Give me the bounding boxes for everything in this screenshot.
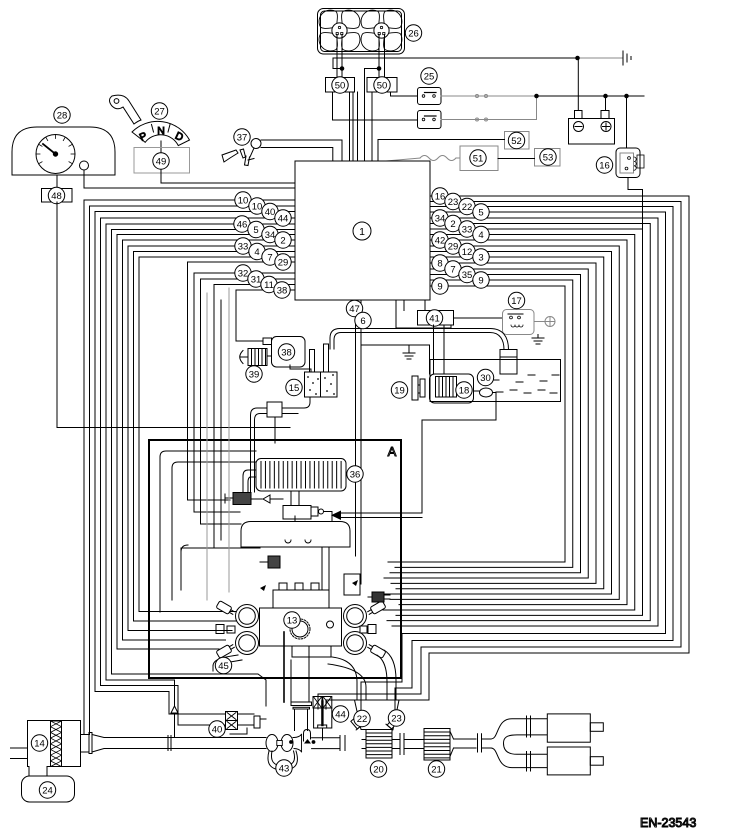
callout 21 bbox=[428, 761, 444, 777]
svg-text:9: 9 bbox=[478, 275, 483, 286]
svg-text:2: 2 bbox=[280, 235, 285, 246]
sub fan relay 25b bbox=[418, 111, 442, 129]
svg-text:3: 3 bbox=[478, 252, 483, 263]
purge pump hoses bbox=[251, 408, 268, 492]
battery wires bbox=[577, 58, 579, 111]
svg-text:16: 16 bbox=[435, 191, 446, 202]
vacuum hoses bbox=[207, 288, 229, 600]
clamp before collector bbox=[339, 736, 341, 751]
svg-text:18: 18 bbox=[459, 385, 470, 396]
svg-text:39: 39 bbox=[249, 369, 260, 380]
fan motor right bbox=[384, 33, 402, 51]
callout 44 bbox=[332, 706, 348, 722]
callout 36 bbox=[347, 466, 363, 482]
check valve bbox=[251, 498, 262, 500]
relay output wires bbox=[441, 95, 537, 122]
svg-text:8: 8 bbox=[437, 258, 442, 269]
selector gate P N D bbox=[132, 121, 190, 145]
svg-text:10: 10 bbox=[252, 201, 263, 212]
svg-text:7: 7 bbox=[450, 264, 455, 275]
ground symbol top right bbox=[578, 57, 623, 59]
svg-text:29: 29 bbox=[448, 241, 459, 252]
svg-text:4: 4 bbox=[254, 247, 259, 258]
crank sprocket bbox=[292, 621, 308, 637]
oil pan bbox=[292, 646, 331, 657]
air cleaner element bbox=[51, 721, 62, 767]
injectors bbox=[216, 601, 236, 617]
svg-text:44: 44 bbox=[278, 213, 289, 224]
fan2 wires bbox=[378, 35, 380, 78]
svg-text:15: 15 bbox=[289, 383, 300, 394]
svg-text:33: 33 bbox=[462, 224, 473, 235]
svg-text:40: 40 bbox=[212, 724, 223, 735]
solenoid valve 40 bbox=[226, 712, 238, 721]
callout 37 bbox=[234, 129, 250, 145]
svg-text:50: 50 bbox=[377, 80, 388, 91]
radiator fan assembly 26 bbox=[318, 9, 405, 55]
wires ECU to unit 41 bbox=[396, 300, 451, 328]
svg-text:49: 49 bbox=[156, 156, 167, 167]
selector stem bbox=[160, 141, 162, 172]
pedal sensor bbox=[251, 139, 261, 149]
wire pedal 2 to ECU bbox=[261, 148, 333, 162]
muffler lower bbox=[547, 747, 590, 775]
left pin wires of ECU bbox=[84, 200, 295, 735]
callout 16 relay bbox=[596, 157, 612, 173]
callout 48 bbox=[48, 187, 64, 203]
cam case right bbox=[344, 574, 360, 595]
left pin callout circles bbox=[235, 192, 251, 208]
pressure sources filter bbox=[267, 402, 282, 417]
exhaust Y pipe bbox=[491, 719, 547, 739]
muffler clamps bbox=[526, 716, 528, 737]
boost solenoid 44 bbox=[313, 697, 322, 709]
engine cylinders bbox=[236, 605, 259, 628]
main fan relay 25a bbox=[418, 88, 442, 105]
turbocharger bbox=[283, 506, 311, 520]
flange 20-21 bbox=[392, 739, 400, 741]
fuse link wire bbox=[386, 156, 460, 162]
wires 50 to ECU and relays bbox=[333, 92, 418, 120]
wire 52 bbox=[378, 140, 505, 162]
wire 16 relay join bbox=[642, 190, 644, 230]
duct end flare bbox=[294, 734, 302, 737]
fuel damper 19 bbox=[412, 376, 418, 400]
intake runners bbox=[321, 547, 323, 590]
callout 19 bbox=[391, 382, 407, 398]
fuel filter 30 bbox=[480, 388, 493, 397]
cam cover small parts bbox=[216, 625, 224, 634]
coolant hose 45 bbox=[213, 655, 238, 671]
svg-text:10: 10 bbox=[238, 195, 249, 206]
callout 39 bbox=[246, 366, 262, 382]
pump motor 39 bbox=[248, 349, 267, 366]
inhibitor switch 49 bbox=[134, 148, 190, 174]
svg-text:28: 28 bbox=[57, 110, 68, 121]
svg-text:23: 23 bbox=[448, 197, 459, 208]
air inlet bbox=[11, 747, 28, 749]
svg-text:45: 45 bbox=[218, 661, 229, 672]
meter knob bbox=[80, 161, 89, 170]
svg-text:6: 6 bbox=[360, 316, 365, 327]
wire meter to 48 bbox=[56, 175, 58, 189]
fan ground wire bbox=[333, 58, 578, 69]
svg-text:40: 40 bbox=[265, 207, 276, 218]
callout 17 bbox=[508, 292, 524, 308]
intercooler air hoses bbox=[160, 451, 256, 612]
svg-text:38: 38 bbox=[281, 347, 292, 358]
svg-text:52: 52 bbox=[511, 136, 522, 147]
svg-text:5: 5 bbox=[478, 207, 483, 218]
svg-text:34: 34 bbox=[435, 213, 446, 224]
battery plus terminal bbox=[601, 122, 611, 132]
wire 48 down to engine bbox=[57, 202, 290, 428]
relay 16 wires bbox=[626, 96, 628, 148]
svg-text:21: 21 bbox=[431, 764, 442, 775]
engine block 13 bbox=[260, 608, 342, 646]
ground near tank bbox=[361, 344, 430, 346]
svg-text:4: 4 bbox=[478, 230, 483, 241]
exhaust manifold collector bbox=[355, 700, 400, 730]
battery symbol at 17 bbox=[534, 321, 545, 323]
svg-text:32: 32 bbox=[238, 268, 249, 279]
svg-text:26: 26 bbox=[408, 28, 419, 39]
svg-text:23: 23 bbox=[391, 713, 402, 724]
fuel pump assembly bbox=[430, 374, 474, 403]
svg-text:11: 11 bbox=[264, 280, 274, 291]
wire 51-53 bbox=[498, 158, 535, 160]
battery minus terminal bbox=[574, 122, 584, 132]
wire meter knob to ECU bbox=[84, 170, 295, 188]
svg-text:16: 16 bbox=[599, 160, 610, 171]
svg-text:31: 31 bbox=[251, 274, 262, 285]
callout 13 bbox=[284, 612, 300, 628]
combination meter 28 bbox=[12, 127, 115, 175]
accelerator pedal 37 bbox=[222, 150, 238, 162]
svg-text:43: 43 bbox=[279, 763, 290, 774]
engine area box A bbox=[149, 440, 401, 678]
svg-text:22: 22 bbox=[462, 202, 473, 213]
knock sensor bbox=[327, 621, 334, 628]
muffler upper bbox=[547, 714, 590, 742]
air cleaner 14 bbox=[28, 721, 81, 777]
fan connector 50 right bbox=[367, 78, 397, 93]
callout 20 bbox=[370, 761, 386, 777]
battery bbox=[569, 119, 615, 145]
callout 6 bbox=[355, 312, 371, 328]
intercooler 36 bbox=[256, 459, 346, 492]
main relay 16 bbox=[616, 148, 640, 178]
svg-text:46: 46 bbox=[237, 219, 248, 230]
connector 48 bbox=[42, 189, 73, 203]
fan1 wires bbox=[336, 35, 338, 78]
callout 15 bbox=[286, 379, 302, 395]
svg-text:48: 48 bbox=[51, 191, 62, 202]
ECU 1 bbox=[295, 161, 430, 300]
svg-text:36: 36 bbox=[350, 469, 361, 480]
resonator chamber 24 bbox=[22, 776, 75, 802]
oxygen sensor 23 bbox=[386, 717, 399, 730]
wire 49 to ECU bbox=[161, 173, 295, 183]
callout 28 bbox=[54, 107, 70, 123]
svg-text:20: 20 bbox=[373, 764, 384, 775]
callout 43 bbox=[276, 760, 292, 776]
wire pedal to ECU bbox=[261, 140, 342, 161]
svg-text:38: 38 bbox=[277, 285, 288, 296]
cam sensor left bbox=[260, 585, 266, 591]
hose 38 to canister bbox=[290, 365, 311, 372]
wire 41 to ignition switch bbox=[454, 317, 503, 319]
vent hook bbox=[304, 730, 311, 742]
duct clamp bbox=[167, 736, 169, 751]
speedometer needle bbox=[43, 144, 56, 154]
bypass hose 43 bbox=[268, 751, 297, 770]
wire battery feed bbox=[537, 95, 645, 97]
rear pipe clamp bbox=[477, 734, 479, 752]
svg-text:9: 9 bbox=[437, 281, 442, 292]
front catalytic converter 20 bbox=[366, 730, 392, 759]
svg-text:42: 42 bbox=[435, 235, 446, 246]
extra harness wire bbox=[220, 300, 222, 540]
front bellows 43 bbox=[266, 735, 278, 752]
svg-text:27: 27 bbox=[154, 106, 165, 117]
right pin wires of ECU bbox=[326, 196, 689, 709]
svg-text:50: 50 bbox=[335, 80, 346, 91]
callout 14 bbox=[31, 735, 47, 751]
oxygen sensor 22 bbox=[350, 717, 363, 730]
unit 53 bbox=[535, 149, 561, 167]
canister 15 bbox=[305, 372, 338, 397]
svg-text:A: A bbox=[388, 444, 397, 459]
callout 45 bbox=[215, 657, 231, 673]
svg-text:7: 7 bbox=[267, 252, 272, 263]
svg-text:12: 12 bbox=[462, 247, 473, 258]
purge control solenoid 38 bbox=[272, 337, 306, 368]
ECU bottom wires 47 6 bbox=[355, 300, 357, 556]
callout 26 bbox=[405, 25, 421, 41]
svg-text:51: 51 bbox=[473, 153, 484, 164]
speedometer dial bbox=[36, 135, 75, 174]
left inner wires to components bbox=[188, 499, 231, 501]
svg-text:34: 34 bbox=[265, 230, 276, 241]
right pin callout circles bbox=[432, 188, 448, 204]
callout 47 bbox=[346, 300, 362, 316]
fan motor left bbox=[342, 33, 360, 51]
svg-text:2: 2 bbox=[450, 219, 455, 230]
ignition coil right bbox=[372, 592, 384, 602]
select lever 27 pivot bbox=[110, 95, 142, 124]
svg-text:25: 25 bbox=[424, 71, 435, 82]
svg-text:41: 41 bbox=[429, 313, 440, 324]
callout 18 bbox=[456, 382, 472, 398]
callout 30 bbox=[477, 369, 493, 385]
fuel tank bbox=[430, 360, 561, 402]
intake manifold bbox=[241, 522, 350, 548]
intake duct bbox=[81, 734, 90, 736]
svg-text:5: 5 bbox=[253, 225, 258, 236]
svg-text:22: 22 bbox=[357, 714, 368, 725]
svg-text:13: 13 bbox=[287, 615, 298, 626]
svg-text:N: N bbox=[157, 125, 165, 137]
rear taper cone bbox=[450, 731, 454, 739]
fan2 feed wire bbox=[365, 69, 380, 162]
svg-text:37: 37 bbox=[237, 132, 248, 143]
intercooler hoses bbox=[243, 470, 256, 492]
evap hose tank to canister bbox=[334, 333, 504, 350]
fuel pump motor 18 bbox=[436, 377, 457, 398]
wastegate solenoid bbox=[233, 493, 251, 505]
svg-text:24: 24 bbox=[42, 785, 53, 796]
ignition switch 17 bbox=[503, 310, 535, 335]
fuel filler pipe bbox=[500, 350, 517, 375]
svg-text:17: 17 bbox=[511, 296, 522, 307]
callout 24 bbox=[39, 782, 55, 798]
svg-text:33: 33 bbox=[238, 241, 249, 252]
svg-text:EN-23543: EN-23543 bbox=[640, 816, 696, 830]
svg-text:19: 19 bbox=[394, 385, 405, 396]
engine outlet pipes bbox=[283, 632, 285, 702]
ground under 17 bbox=[537, 335, 539, 339]
blowby arrow bbox=[171, 706, 178, 713]
fuel line to engine bbox=[340, 393, 496, 514]
svg-text:44: 44 bbox=[335, 709, 346, 720]
svg-text:53: 53 bbox=[543, 152, 554, 163]
exhaust downpipe flange bbox=[291, 702, 312, 706]
svg-text:1: 1 bbox=[359, 226, 365, 238]
svg-text:14: 14 bbox=[34, 738, 45, 749]
wire 41 to fuel pump bbox=[443, 325, 445, 374]
callout 27 bbox=[151, 103, 167, 119]
engine rocker cover bbox=[273, 590, 329, 614]
igniter 41 bbox=[418, 311, 454, 326]
svg-text:35: 35 bbox=[462, 270, 473, 281]
unit 51 bbox=[460, 146, 498, 171]
svg-text:29: 29 bbox=[278, 257, 289, 268]
fan connector 50 left bbox=[326, 78, 355, 93]
rear catalytic converter 21 bbox=[424, 729, 450, 761]
svg-text:30: 30 bbox=[480, 373, 491, 384]
callout 25 bbox=[421, 68, 437, 84]
pressure solenoid bbox=[268, 556, 280, 568]
callout 40 bbox=[209, 721, 225, 737]
unit 52 bbox=[505, 132, 530, 150]
